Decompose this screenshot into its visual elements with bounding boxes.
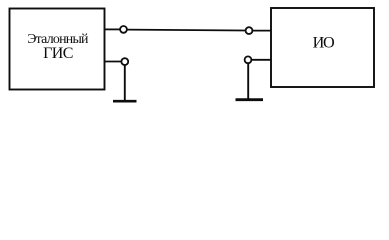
wire right bottom terminal to right box	[252, 59, 272, 61]
block U2 ИО	[271, 8, 374, 87]
terminal left top	[120, 26, 127, 33]
wire top terminal to right box	[253, 30, 272, 32]
svg-text:ИО: ИО	[313, 34, 335, 52]
wire right bottom terminal down	[247, 63, 249, 99]
ground left	[113, 100, 137, 103]
label Эталонный	[27, 32, 89, 47]
svg-text:ГИС: ГИС	[43, 45, 73, 62]
terminal right bottom	[245, 56, 252, 63]
label ИО	[313, 34, 335, 52]
ground right	[236, 98, 264, 101]
label ГИС	[43, 45, 73, 62]
block U1 Эталонный ГИС	[10, 9, 105, 90]
terminal left bottom	[121, 58, 128, 65]
wire top interconnect	[127, 29, 246, 32]
wire left bottom terminal down	[124, 65, 126, 101]
wire left box to top terminal	[105, 28, 120, 30]
terminal right top	[246, 27, 253, 34]
wire left box to bottom terminal	[105, 61, 122, 63]
